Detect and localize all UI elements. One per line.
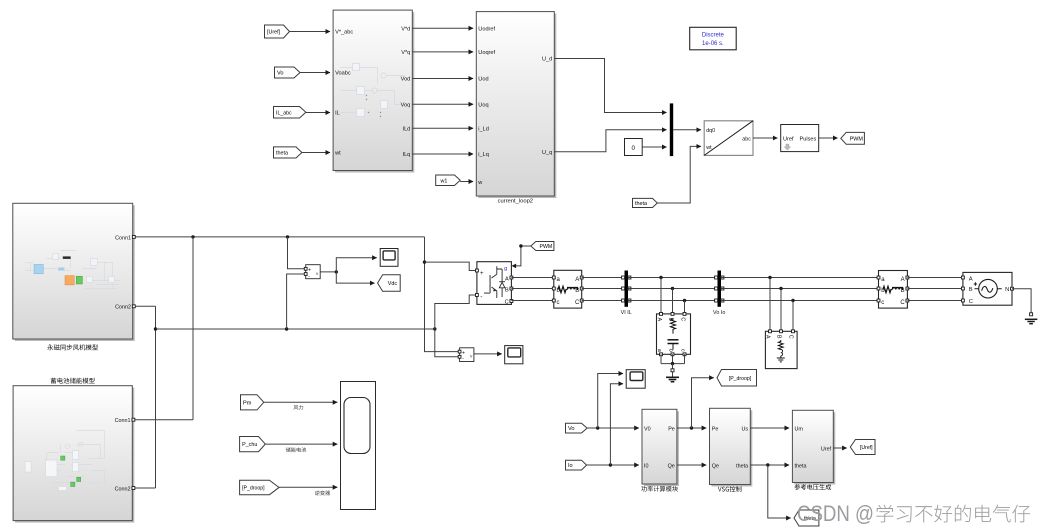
node junction plus bus to inverter [423,260,426,263]
svg-text:Voabc: Voabc [335,71,351,77]
wire Us to Um [750,427,789,429]
three-phase series RLC branch 1 (filter inductor) [554,270,582,308]
three-phase filter capacitor branch [657,314,691,354]
svg-text:U_q: U_q [542,150,552,156]
wire VI IL to Vo Io bar phase A [628,277,718,279]
goto tag [Uref] [850,440,875,455]
wire inverter minus to minus bus and VM2 [435,295,476,357]
svg-text:Uref: Uref [783,136,794,142]
svg-text:i_Ld: i_Ld [478,127,489,133]
from tag [P_droop] (left) [240,480,279,495]
wire junction to inverter plus [425,262,476,270]
svg-text:Um: Um [795,426,804,432]
svg-text:+: + [480,271,484,277]
svg-text:Voq: Voq [401,102,411,108]
label power calculation module [641,486,678,492]
svg-text:Pulses: Pulses [800,136,817,142]
svg-text:Vo Io: Vo Io [713,310,725,316]
powergui block Discrete [690,27,737,50]
source sine icon [979,279,998,298]
from tag Pm [241,395,264,410]
goto tag PWM [841,132,865,144]
svg-text:[Uref]: [Uref] [267,30,281,36]
wire U_d to mux [554,59,666,113]
label storage battery [286,447,306,452]
wire VI IL to Vo Io bar phase B [628,288,718,290]
wire PMSG Conn2 to minus bus [135,306,156,488]
filter cap ports [660,312,663,315]
load resistor-inductor-ground icon [777,340,785,362]
three-phase RLC load [765,331,797,368]
wire to scope1 [336,258,376,272]
three-phase programmable voltage source [963,272,1012,305]
voltage measurement VM1 [306,265,321,279]
label wind power [294,405,304,410]
svg-text:c: c [557,300,560,306]
filter cap resistor and capacitor icon [668,319,679,350]
svg-text:Pm: Pm [243,400,252,406]
svg-text:B: B [969,287,973,293]
wire [Uref] to V*_abc [290,31,331,33]
ground symbol filter [666,377,679,381]
svg-text:c: c [679,349,685,352]
node junction Io [609,463,612,466]
wire Vo to Voabc [300,72,330,74]
wire RLC2 to source A [907,277,963,279]
wire w1 to w [460,181,473,183]
from tag w1 [436,175,461,186]
svg-text:[P_droop]: [P_droop] [729,376,752,382]
svg-text:B: B [776,335,782,339]
svg-text:C: C [505,300,509,306]
wire RLC1 to VI IL bar [582,278,625,301]
battery thumbnail colored blocks [61,456,65,460]
source ports [961,276,964,279]
wire P_chu to scope input [265,443,337,445]
IGBT inverter block [477,262,512,305]
from tag theta (to wt) [633,198,658,207]
svg-text:theta: theta [635,201,647,207]
wire V*d to Uodref [412,27,473,29]
subsystem battery storage model [15,388,134,523]
svg-text:Vo: Vo [568,426,575,432]
svg-text:U_d: U_d [542,57,552,63]
dq0 to abc transform block [704,121,753,156]
inverter ports [475,269,478,272]
svg-text:Vdc: Vdc [388,281,398,287]
svg-text:Uref: Uref [821,446,832,452]
svg-text:i_Lq: i_Lq [478,152,489,158]
three-phase VI measurement VI IL [625,271,629,307]
svg-text:-: - [480,294,482,301]
svg-text:A: A [656,318,662,322]
goto tag [P_droop] [717,370,757,387]
svg-text:Qe: Qe [668,463,675,469]
node junction on plus bus x192 [191,235,194,238]
wire VM1 v out [320,271,336,273]
svg-text:VI IL: VI IL [621,310,632,316]
label inverter text [315,490,330,495]
svg-text:Us: Us [742,426,749,432]
svg-text:C: C [969,299,973,305]
wire mux to dq0 [673,129,701,131]
svg-text:A: A [575,277,579,283]
wire theta to ref block [750,464,789,466]
wire abc to PWM generator [753,137,777,139]
from tag Vo [275,67,301,78]
node junction minus bus x286 [285,327,288,330]
node junction minus bus x155 [154,327,157,330]
RLC1 resistor-inductor icon [558,286,578,292]
node junction VM1 out [335,270,338,273]
from tag Vo (power calc) [566,423,588,433]
svg-text:ILq: ILq [403,152,411,158]
from tag IL_abc [274,107,306,119]
wire constant to mux [642,146,666,148]
svg-text:N: N [1005,287,1009,293]
svg-text:V*q: V*q [401,50,410,56]
wire V*q to Uoqref [412,51,473,53]
IGBT and diode icon inside inverter [484,275,490,293]
svg-text:C: C [900,300,905,306]
svg-text:A: A [765,335,771,339]
wire [P_droop] to scope input [279,486,337,488]
wire ILq to i_Lq [412,153,473,155]
svg-text:CSDN @: CSDN @ [797,501,874,526]
three-phase series RLC branch 2 (grid impedance) [879,271,908,309]
subsystem power calculation module [644,411,679,486]
wire theta to wt of dq0 [657,146,701,203]
label VSG control [718,486,741,492]
wire to battery Conn1 [135,237,193,420]
svg-text:V*_abc: V*_abc [335,30,353,36]
svg-text:abc: abc [742,136,751,142]
svg-text:a: a [656,349,662,352]
svg-text:V0: V0 [644,426,651,432]
wire N to ground [1012,289,1031,314]
from tag theta [274,147,302,158]
goto tag Vdc [378,275,401,292]
wire RLC2 to source B [907,288,963,290]
svg-text:wt: wt [705,145,712,151]
node junctions to load [768,276,771,279]
wire minus bus to VM1 minus [287,274,305,329]
scope3 power scope [626,370,645,389]
node junctions to filter cap [659,276,662,279]
label PMSG model [47,344,98,350]
wire Pe up to [P_droop] goto [692,378,714,428]
svg-text:Conn2: Conn2 [115,305,131,311]
from tag PWM (gate drive) [531,242,554,251]
svg-text:c: c [881,300,884,306]
svg-text:theta: theta [795,463,807,469]
node junction on plus bus x287 [286,235,289,238]
svg-text:g: g [504,266,507,272]
voltage measurement VM2 [460,348,474,362]
wire theta down to goto [768,465,791,518]
wire U_q to mux [554,130,666,152]
goto tag theta (bottom) [794,510,819,526]
wire star point to ground [672,364,674,377]
svg-text:Uoqref: Uoqref [478,50,495,56]
PWM generator block Uref Pulses [781,125,819,152]
svg-text:Conn2: Conn2 [115,487,131,493]
svg-text:Conn1: Conn1 [115,236,131,242]
wire DC plus bus from PMSG Conn1 [135,236,424,238]
svg-text:current_loop2: current_loop2 [498,199,533,205]
mux [670,103,673,156]
wire VI IL to Vo Io bar phase C [628,300,718,302]
svg-text:PWM: PWM [540,244,553,250]
svg-text:Vod: Vod [401,77,411,83]
wire Qe to VSG [677,464,706,466]
wire inverter B to RLC1 b [511,288,553,290]
wires down to filter capacitor block [661,278,685,313]
PMSG thumbnail colored blocks [34,264,43,273]
svg-text:Conn1: Conn1 [115,418,131,424]
svg-text:C: C [679,317,685,321]
node junction Vo [596,426,599,429]
subsystem block current_loop2 [478,14,556,198]
wires down to load block [770,278,793,330]
svg-text:Qe: Qe [712,463,719,469]
wire Vo Io to RLC2 phase C [721,300,879,302]
RLC2 resistor-inductor icon [883,286,903,292]
three-phase VI measurement Vo Io [718,271,722,307]
subsystem PMSG wind turbine model [15,205,135,341]
wire Voq to Uoq [412,103,473,105]
svg-text:[P_droop]: [P_droop] [242,485,265,491]
wire plus bus down to VM2 [425,237,459,352]
svg-text:1e-06 s.: 1e-06 s. [702,41,724,47]
svg-text:Pe: Pe [712,426,719,432]
svg-text:Vo: Vo [277,71,284,77]
wire Io up to scope3 [610,384,623,465]
wire DC minus bus [156,328,435,330]
wire Pulses to PWM goto [819,137,838,139]
svg-text:IL: IL [335,111,340,117]
svg-text:C: C [788,335,794,339]
svg-text:Io: Io [568,463,573,469]
wire Vod to Uod [412,78,473,80]
label battery model [51,378,95,384]
wire plus bus to VM1 plus [288,237,305,269]
svg-text:V*d: V*d [401,26,410,32]
wire Pm to scope input [264,401,338,403]
wires filter cap to ground node [661,354,685,363]
svg-text:[Uref]: [Uref] [860,445,873,451]
node junction theta [766,463,769,466]
subsystem reference voltage generation [794,412,835,484]
svg-text:PWM: PWM [850,136,864,142]
scope4 power scope [341,382,376,510]
svg-text:Uodref: Uodref [478,26,495,32]
svg-text:A: A [901,277,905,283]
wire Vo to V0 [587,427,639,429]
load ports [769,330,772,333]
svg-text:Discrete: Discrete [702,33,725,39]
wire Vo Io to RLC2 phase B [721,288,879,290]
wire Pe to VSG [677,427,706,429]
wire VM2 v out to scope2 [474,353,502,355]
node junction minus bus x434 [433,327,436,330]
svg-text:w1: w1 [440,178,448,184]
svg-text:Pe: Pe [668,426,675,432]
wire Vo Io to RLC2 phase A [721,277,879,279]
from tag [Uref] [265,25,290,38]
svg-text:P_chu: P_chu [242,442,257,448]
wire IL_abc to IL [306,112,330,114]
svg-text:b: b [667,349,673,352]
wire Io to I0 [587,464,639,466]
svg-text:wt: wt [334,151,341,157]
wire inverter C to RLC1 c [511,300,553,302]
subsystem block voltage-current dq transform [335,12,414,172]
scope1 Vdc scope [380,249,398,267]
svg-text:Uoq: Uoq [478,102,488,108]
wire RLC2 to source C [907,300,963,302]
from tag P_chu [240,437,266,452]
from tag Io [566,460,587,470]
svg-text:I0: I0 [644,463,649,469]
svg-text:dq0: dq0 [706,128,715,134]
node filter star point [671,362,674,365]
wire theta to wt [302,152,330,154]
RLC2 ports [877,276,880,279]
subsystem VSG control [712,410,753,486]
svg-text:A: A [505,276,509,282]
wire PWM from tag to inverter gate [515,246,531,266]
svg-text:A: A [969,277,973,283]
wire Uref to goto [833,447,846,449]
ground symbol grid [1025,319,1038,323]
node junction Pe [690,426,693,429]
wire ILd to i_Ld [412,127,473,129]
svg-text:Uod: Uod [478,77,488,83]
wire inverter A to RLC1 a [511,277,553,279]
svg-text:0: 0 [632,145,636,152]
constant block 0 [625,139,643,156]
svg-text:IL_abc: IL_abc [276,110,292,116]
svg-text:theta: theta [276,150,288,156]
scope2 [505,346,523,364]
wire Vo up to scope3 [598,374,623,429]
block1 port labels [334,26,410,158]
RLC1 ports [552,276,555,279]
svg-text:theta: theta [736,463,748,469]
svg-text:C: C [575,300,580,306]
label reference voltage generation [794,484,831,490]
svg-text:ILd: ILd [403,126,411,132]
wire to Vdc goto [336,272,374,283]
